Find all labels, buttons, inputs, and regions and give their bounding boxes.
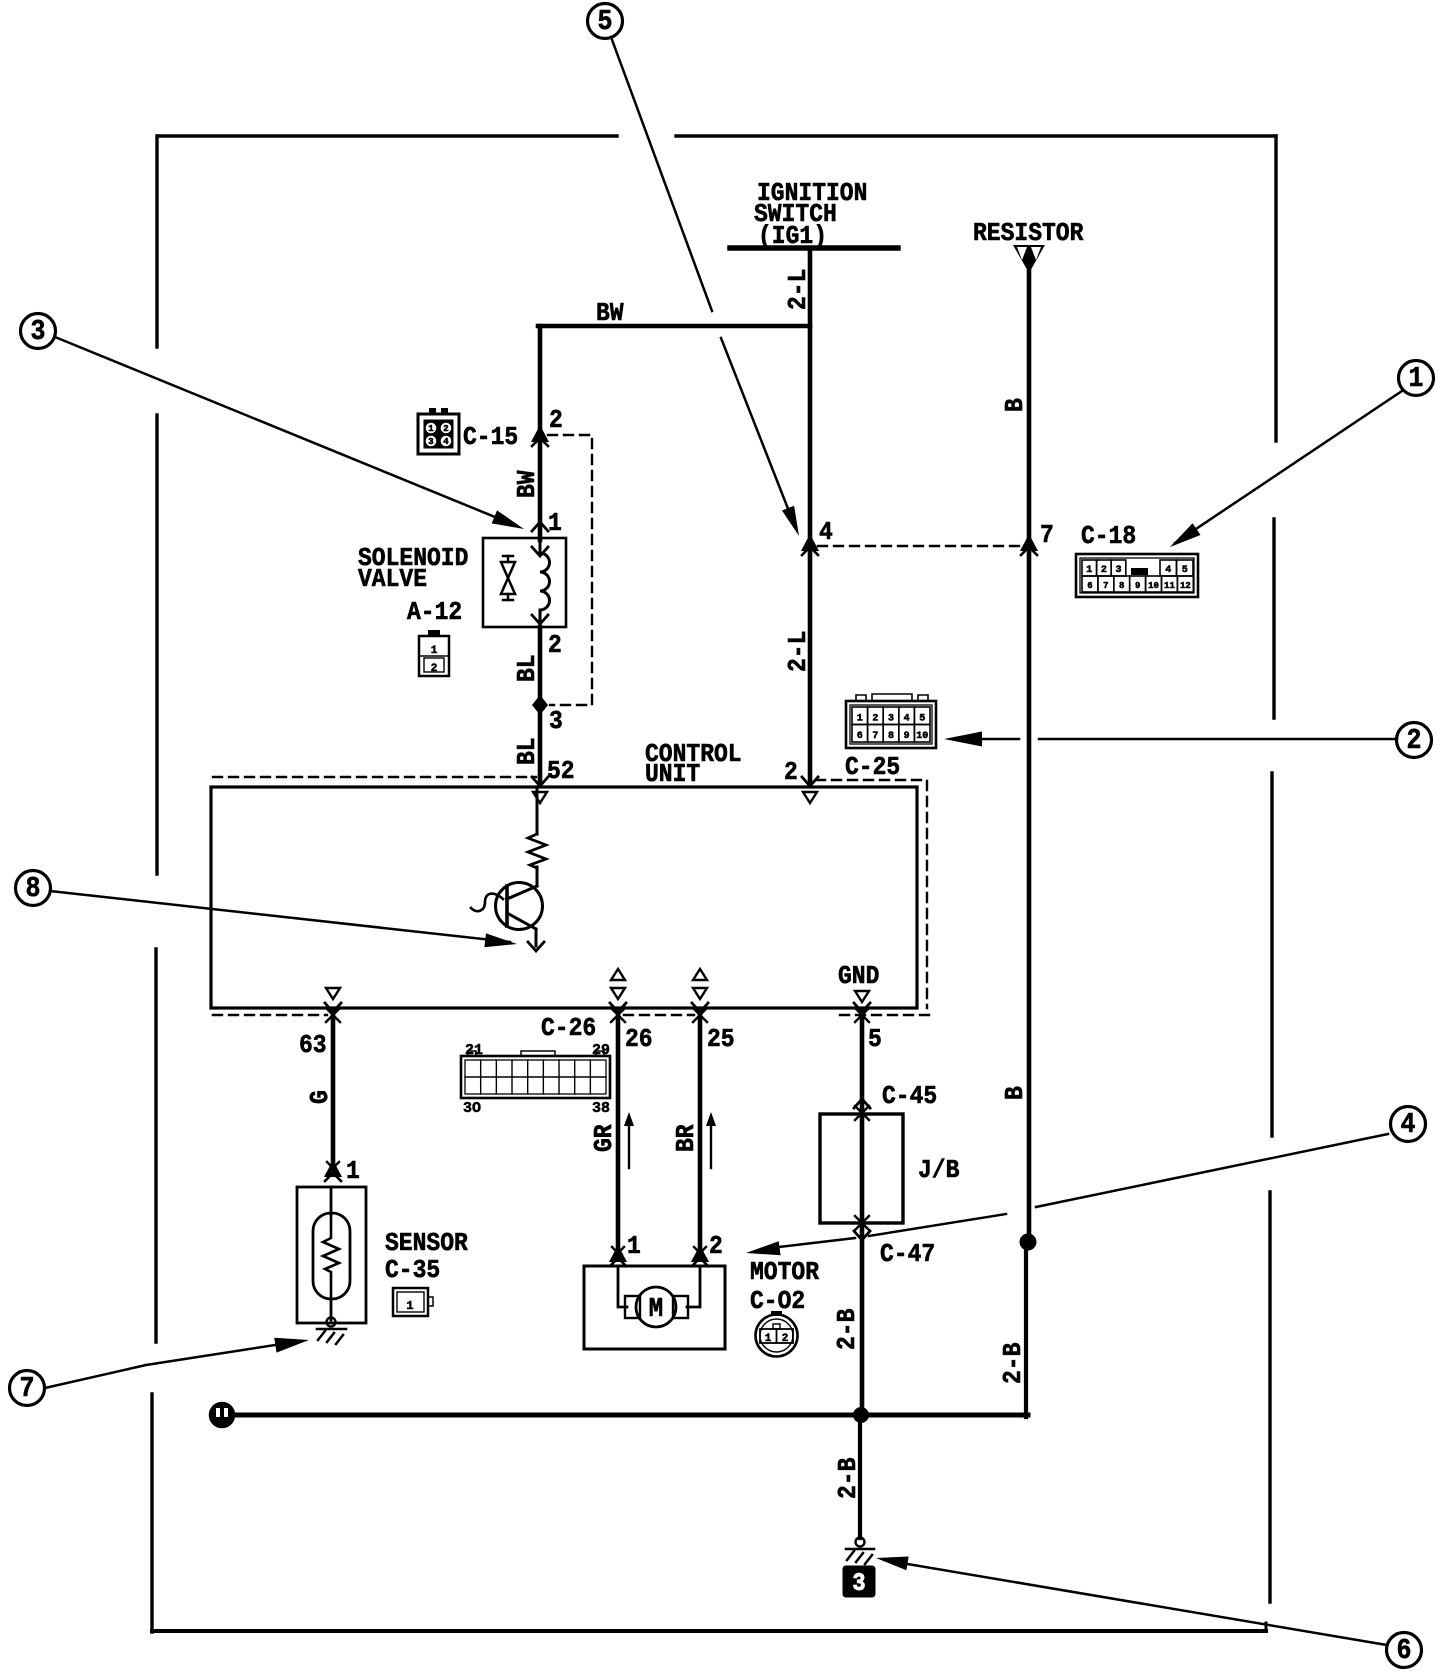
svg-text:4: 4 bbox=[904, 714, 910, 725]
node 4 junction arrow bbox=[801, 534, 819, 551]
svg-text:3: 3 bbox=[888, 714, 894, 725]
svg-text:7: 7 bbox=[20, 1374, 35, 1406]
control unit pin 2 entry triangle bbox=[803, 792, 817, 803]
svg-text:5: 5 bbox=[1182, 565, 1188, 576]
ignition switch bar bbox=[730, 245, 898, 251]
callout 3 arrow bbox=[492, 510, 524, 529]
svg-text:6: 6 bbox=[857, 731, 863, 742]
wire GND pin5 to bus bbox=[860, 1015, 865, 1417]
ground reference 3 black square bbox=[843, 1566, 875, 1597]
svg-text:1: 1 bbox=[548, 510, 562, 539]
svg-text:1: 1 bbox=[431, 645, 438, 657]
svg-text:C-35: C-35 bbox=[385, 1257, 440, 1286]
svg-text:4: 4 bbox=[1401, 1110, 1416, 1142]
svg-text:4: 4 bbox=[1165, 565, 1171, 576]
svg-text:2: 2 bbox=[549, 407, 563, 436]
transistor emitter chord bbox=[507, 913, 536, 929]
dashed harness C-25 drop bbox=[816, 780, 927, 1008]
svg-text:2: 2 bbox=[872, 714, 878, 725]
svg-text:29: 29 bbox=[592, 1042, 610, 1059]
svg-text:26: 26 bbox=[625, 1026, 653, 1055]
svg-text:12: 12 bbox=[1180, 581, 1191, 591]
wire B resistor to node 7 bbox=[1027, 270, 1032, 548]
svg-text:2: 2 bbox=[431, 663, 438, 675]
wire B down to ground bus bbox=[1024, 1242, 1028, 1417]
callout 1 leader bbox=[1175, 391, 1402, 543]
callout 7 leader bbox=[45, 1341, 301, 1388]
svg-text:3O: 3O bbox=[463, 1100, 481, 1117]
wire G pin63 to sensor bbox=[331, 1015, 336, 1174]
svg-text:7: 7 bbox=[1040, 522, 1054, 551]
svg-text:GR: GR bbox=[591, 1124, 620, 1152]
wire 2-B bus junction dot bbox=[855, 1409, 868, 1422]
svg-text:4: 4 bbox=[443, 437, 449, 447]
svg-text:C-45: C-45 bbox=[882, 1083, 937, 1112]
junction box J/B bbox=[820, 1114, 903, 1223]
motor wire pin1 bbox=[618, 1266, 627, 1307]
svg-text:8: 8 bbox=[888, 731, 894, 742]
svg-text:21: 21 bbox=[465, 1042, 483, 1059]
wire 2-L ignition to node 4 bbox=[808, 248, 813, 548]
svg-text:2: 2 bbox=[709, 1233, 723, 1262]
dashed bypass C-15 to pin3 bbox=[548, 435, 592, 705]
svg-text:2: 2 bbox=[1407, 726, 1422, 758]
svg-text:1: 1 bbox=[1409, 364, 1424, 396]
callout 1 circle bbox=[1399, 361, 1434, 396]
resistor symbol bbox=[1013, 245, 1045, 273]
pin 63 X junction bbox=[326, 1008, 340, 1022]
callout 8 leader bbox=[50, 891, 510, 942]
dashed harness link node4 to node7 bbox=[818, 545, 1022, 547]
dashed harness line below control unit left bbox=[213, 1014, 327, 1016]
pin 25 X junction bbox=[693, 1008, 707, 1022]
motor pin 2 junction arrow bbox=[691, 1245, 709, 1262]
solenoid coil bbox=[540, 540, 550, 627]
svg-text:SENSOR: SENSOR bbox=[385, 1230, 468, 1259]
dashed harness line below control unit right bbox=[840, 1014, 931, 1016]
svg-text:BW: BW bbox=[514, 470, 543, 498]
svg-text:63: 63 bbox=[299, 1032, 327, 1061]
svg-text:C-15: C-15 bbox=[463, 424, 518, 453]
svg-text:3: 3 bbox=[428, 437, 433, 447]
ground bus splice symbol bbox=[210, 1403, 234, 1427]
transistor output arrow bbox=[528, 942, 544, 951]
wire resistor to transistor bbox=[536, 867, 539, 886]
callout 1 arrow bbox=[1170, 523, 1201, 547]
svg-text:BL: BL bbox=[514, 654, 543, 682]
callout 3 leader bbox=[55, 337, 517, 526]
svg-text:2-L: 2-L bbox=[785, 269, 814, 310]
connector C-15 icon bbox=[418, 414, 459, 454]
callout 5 arrow bbox=[782, 506, 799, 536]
wire GR pin26 to motor bbox=[616, 1015, 621, 1258]
pin 5 GND exit triangle bbox=[855, 991, 869, 1002]
connector C-18 icon bbox=[1076, 554, 1198, 597]
ground bus wire bbox=[232, 1413, 1028, 1418]
wire BL pin3 to control unit bbox=[538, 705, 543, 786]
svg-text:RESISTOR: RESISTOR bbox=[973, 220, 1084, 249]
wire 2-B bus to ground bbox=[858, 1415, 862, 1538]
svg-text:9: 9 bbox=[1135, 581, 1140, 591]
callout 4 circle bbox=[1391, 1107, 1426, 1142]
transistor base bar bbox=[505, 886, 509, 926]
sensor internal wire top bbox=[330, 1187, 333, 1215]
wire BW horizontal bbox=[538, 324, 810, 329]
sensor thermistor zigzag bbox=[323, 1215, 339, 1299]
control unit pin 52 entry triangle bbox=[533, 792, 547, 803]
callout 5 circle bbox=[588, 4, 623, 39]
wire BW down to C-15 pin2 bbox=[538, 326, 543, 435]
svg-text:BW: BW bbox=[596, 300, 624, 329]
callout 4 leader bbox=[779, 1238, 855, 1247]
dashed harness line above control unit bbox=[213, 776, 536, 778]
svg-text:5: 5 bbox=[868, 1026, 882, 1055]
chassis ground symbol bbox=[856, 1538, 865, 1547]
svg-text:G: G bbox=[307, 1090, 336, 1104]
border frame right edge bbox=[1274, 136, 1277, 441]
wire BW C-15 to solenoid pin1 bbox=[538, 437, 543, 540]
svg-text:VALVE: VALVE bbox=[358, 566, 427, 595]
sensor pin 1 junction arrow bbox=[324, 1160, 342, 1177]
svg-text:B: B bbox=[1002, 398, 1031, 412]
svg-text:C-25: C-25 bbox=[845, 754, 900, 783]
transistor emitter wire bbox=[535, 929, 538, 946]
svg-text:3: 3 bbox=[1115, 565, 1121, 576]
svg-text:1: 1 bbox=[857, 714, 863, 725]
sensor thermistor pill bbox=[313, 1213, 350, 1299]
callout 8 arrow bbox=[484, 933, 517, 947]
callout 6 circle bbox=[1387, 1633, 1422, 1668]
control unit box bbox=[211, 787, 917, 1008]
connector C-26 icon bbox=[461, 1056, 610, 1098]
sensor ground circle bbox=[327, 1318, 336, 1327]
motor wire pin2 bbox=[687, 1266, 700, 1307]
svg-text:1: 1 bbox=[428, 424, 434, 434]
svg-text:1: 1 bbox=[346, 1158, 360, 1187]
callout 2 arrow bbox=[944, 732, 982, 747]
svg-text:J/B: J/B bbox=[918, 1157, 960, 1186]
svg-text:8: 8 bbox=[26, 874, 41, 906]
junction dot C-47 splice bbox=[1021, 1235, 1035, 1249]
svg-text:B: B bbox=[1002, 1086, 1031, 1100]
dashed harness line below control unit middle bbox=[624, 1014, 694, 1016]
wire 2-L end crowfoot pin 2 bbox=[802, 777, 818, 786]
svg-text:C-26: C-26 bbox=[541, 1015, 596, 1044]
svg-text:2-B: 2-B bbox=[834, 1308, 863, 1350]
svg-text:5: 5 bbox=[919, 714, 925, 725]
callout 2 circle bbox=[1397, 723, 1432, 758]
callout 6 arrow bbox=[876, 1557, 909, 1571]
svg-text:4: 4 bbox=[819, 519, 833, 548]
callout 6 leader bbox=[884, 1560, 1387, 1645]
svg-text:3: 3 bbox=[31, 317, 46, 349]
connector C-25 icon bbox=[846, 701, 936, 748]
svg-text:MOTOR: MOTOR bbox=[750, 1259, 819, 1288]
svg-text:C-47: C-47 bbox=[880, 1241, 935, 1270]
svg-text:1: 1 bbox=[627, 1233, 641, 1262]
pin 63 exit triangle bbox=[326, 988, 340, 999]
sensor internal wire bottom bbox=[330, 1299, 333, 1320]
svg-text:2: 2 bbox=[443, 424, 448, 434]
svg-text:2: 2 bbox=[1101, 565, 1107, 576]
svg-text:C-18: C-18 bbox=[1081, 523, 1136, 552]
svg-text:2: 2 bbox=[784, 759, 798, 788]
callout 5 leader bbox=[611, 37, 712, 311]
svg-text:UNIT: UNIT bbox=[645, 761, 700, 790]
C-15 pin 2 junction arrow bbox=[531, 425, 549, 442]
svg-text:M: M bbox=[649, 1294, 663, 1325]
svg-text:5: 5 bbox=[598, 7, 613, 39]
svg-text:BR: BR bbox=[673, 1124, 702, 1152]
sensor ground hatches bbox=[318, 1331, 343, 1344]
svg-text:BL: BL bbox=[514, 737, 543, 765]
svg-text:6: 6 bbox=[1087, 581, 1092, 591]
C-47 junction arrows bbox=[855, 1216, 869, 1230]
sensor ground bar bbox=[317, 1328, 346, 1331]
svg-text:2: 2 bbox=[782, 1333, 789, 1345]
solenoid valve box bbox=[483, 538, 566, 627]
node 3 junction diamond bbox=[532, 695, 548, 715]
motor box bbox=[584, 1266, 725, 1349]
svg-text:9: 9 bbox=[904, 731, 910, 742]
connector C-02 icon bbox=[756, 1315, 798, 1357]
solenoid valve symbol bbox=[501, 562, 515, 594]
border frame top edge bbox=[158, 134, 617, 137]
border frame bottom edge bbox=[152, 1629, 1266, 1633]
pin 25 exit triangles bbox=[693, 969, 707, 980]
callout 7 arrow bbox=[274, 1338, 309, 1353]
wire BL end crowfoot pin 52 bbox=[532, 777, 548, 786]
svg-text:7: 7 bbox=[872, 731, 878, 742]
BR direction arrow bbox=[710, 1120, 712, 1168]
callout 3 circle bbox=[21, 314, 56, 349]
transistor collector chord bbox=[507, 886, 537, 899]
solenoid pin 1 crowfoot bbox=[532, 522, 548, 531]
svg-text:6: 6 bbox=[1397, 1636, 1412, 1668]
svg-text:11: 11 bbox=[1164, 581, 1175, 591]
motor M circle bbox=[636, 1287, 676, 1327]
border frame left edge bbox=[155, 136, 158, 347]
svg-text:25: 25 bbox=[707, 1026, 735, 1055]
motor pin 1 junction arrow bbox=[609, 1245, 627, 1262]
svg-text:1: 1 bbox=[1086, 565, 1092, 576]
internal resistor wire bbox=[536, 789, 539, 834]
GR direction arrow bbox=[628, 1120, 630, 1168]
svg-text:10: 10 bbox=[916, 731, 928, 742]
C-45 junction arrows bbox=[854, 1099, 870, 1108]
callout 7 circle bbox=[10, 1371, 45, 1406]
svg-text:52: 52 bbox=[547, 758, 575, 787]
wire BL solenoid to pin3 bbox=[538, 627, 543, 707]
pin 26 X junction bbox=[611, 1008, 625, 1022]
connector C-35 icon bbox=[393, 1288, 428, 1316]
sensor box bbox=[297, 1187, 366, 1323]
callout 8 circle bbox=[16, 871, 51, 906]
connector A-12 icon bbox=[428, 630, 440, 636]
svg-text:2-B: 2-B bbox=[835, 1457, 864, 1499]
transistor Q1 circle bbox=[496, 883, 543, 930]
pin 26 exit triangles bbox=[611, 969, 625, 980]
motor brushes bbox=[625, 1296, 640, 1318]
callout 4 arrow bbox=[746, 1241, 781, 1255]
svg-text:1: 1 bbox=[406, 1299, 413, 1313]
svg-text:10: 10 bbox=[1148, 581, 1159, 591]
svg-text:7: 7 bbox=[1103, 581, 1108, 591]
svg-text:1: 1 bbox=[765, 1333, 772, 1345]
transistor base curl bbox=[471, 894, 503, 912]
wire 2-L node4 to control unit bbox=[808, 544, 813, 786]
internal resistor zigzag bbox=[528, 834, 546, 868]
svg-text:8: 8 bbox=[1119, 581, 1124, 591]
svg-text:2: 2 bbox=[548, 632, 562, 661]
wire B node7 to C-47 dot bbox=[1027, 544, 1032, 1242]
callout 2 leader bbox=[982, 738, 1019, 741]
svg-text:A-12: A-12 bbox=[407, 599, 462, 628]
svg-text:3: 3 bbox=[549, 708, 563, 737]
svg-text:38: 38 bbox=[592, 1100, 610, 1117]
node 7 junction arrow bbox=[1020, 534, 1038, 551]
pin 5 X junction bbox=[855, 1008, 869, 1022]
svg-text:3: 3 bbox=[852, 1570, 865, 1599]
wire BR pin25 to motor bbox=[698, 1015, 703, 1258]
svg-text:GND: GND bbox=[838, 963, 879, 992]
